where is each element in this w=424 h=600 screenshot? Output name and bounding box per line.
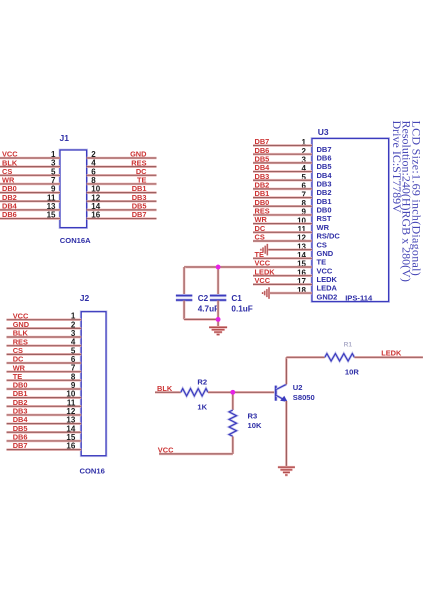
svg-text:RES: RES xyxy=(131,158,146,167)
svg-text:5: 5 xyxy=(51,167,56,176)
svg-text:DB6: DB6 xyxy=(317,154,332,163)
svg-text:DB3: DB3 xyxy=(255,172,270,181)
wire J1 pin 12 xyxy=(87,200,157,203)
wire C1 top lead xyxy=(217,267,220,295)
svg-text:DB2: DB2 xyxy=(317,188,332,197)
svg-text:VCC: VCC xyxy=(317,266,333,275)
svg-text:DB6: DB6 xyxy=(13,433,28,442)
ground at U3 pin 13 xyxy=(261,244,267,256)
wire J1 pin 8 xyxy=(87,183,157,186)
svg-text:14: 14 xyxy=(91,202,100,211)
svg-text:15: 15 xyxy=(47,211,56,220)
junction dot VCC/C1 xyxy=(216,265,221,270)
svg-text:11: 11 xyxy=(67,398,76,407)
wire VCC rail U3 pin 15 to capacitors xyxy=(184,266,312,269)
svg-text:4.7uF: 4.7uF xyxy=(198,305,219,314)
ground at U3 pin 18 xyxy=(263,287,269,299)
svg-text:DB2: DB2 xyxy=(255,181,270,190)
svg-text:DC: DC xyxy=(255,224,266,233)
svg-text:GND2: GND2 xyxy=(317,292,338,301)
wire J2 pin 7 xyxy=(7,370,82,373)
svg-text:9: 9 xyxy=(51,185,56,194)
wire J1 pin 16 xyxy=(87,217,157,220)
svg-text:DB7: DB7 xyxy=(13,441,28,450)
svg-text:DB5: DB5 xyxy=(255,154,270,163)
wire J2 pin 9 xyxy=(7,388,82,391)
svg-text:DB3: DB3 xyxy=(13,407,28,416)
wire U3 pin 7 xyxy=(253,196,312,199)
svg-text:CON16A: CON16A xyxy=(60,236,91,245)
svg-text:11: 11 xyxy=(47,193,56,202)
svg-text:DB4: DB4 xyxy=(13,415,29,424)
svg-text:10R: 10R xyxy=(345,368,359,377)
svg-text:12: 12 xyxy=(91,193,100,202)
svg-text:DB3: DB3 xyxy=(317,180,332,189)
svg-text:CS: CS xyxy=(317,240,327,249)
wire J2 pin 3 xyxy=(7,336,82,339)
svg-text:2: 2 xyxy=(71,320,76,329)
svg-text:DB1: DB1 xyxy=(255,189,270,198)
wire J1 pin 1 xyxy=(0,157,60,160)
svg-text:DB5: DB5 xyxy=(13,424,28,433)
svg-text:IPS-114: IPS-114 xyxy=(345,294,373,303)
svg-text:DB1: DB1 xyxy=(13,389,28,398)
svg-text:14: 14 xyxy=(66,424,75,433)
wire U3 pin 1 xyxy=(253,144,312,147)
svg-text:12: 12 xyxy=(66,407,75,416)
svg-text:DB1: DB1 xyxy=(132,184,147,193)
svg-text:10: 10 xyxy=(66,390,75,399)
svg-text:WR: WR xyxy=(2,176,15,185)
wire U3 pin 11 xyxy=(253,231,312,234)
svg-text:DB6: DB6 xyxy=(2,210,17,219)
svg-text:10K: 10K xyxy=(248,421,262,430)
wire U3 pin 5 xyxy=(253,179,312,182)
svg-text:LEDK: LEDK xyxy=(381,349,402,358)
svg-text:DB3: DB3 xyxy=(132,193,147,202)
wire capacitor ground rail xyxy=(184,318,218,321)
svg-text:U2: U2 xyxy=(293,383,303,392)
svg-text:RES: RES xyxy=(255,207,270,216)
svg-text:6: 6 xyxy=(71,355,76,364)
wire C2 top lead xyxy=(183,267,186,295)
wire collector up xyxy=(285,357,288,384)
wire BLK to R2 xyxy=(155,391,181,394)
wire R1 to LEDK xyxy=(354,356,423,359)
wire J2 pin 16 xyxy=(7,448,82,451)
svg-text:WR: WR xyxy=(317,223,330,232)
wire J2 pin 11 xyxy=(7,405,82,408)
wire U3 pin 3 xyxy=(253,162,312,165)
svg-text:VCC: VCC xyxy=(13,311,29,320)
svg-text:Drive IC:ST7789V: Drive IC:ST7789V xyxy=(390,121,404,214)
svg-text:WR: WR xyxy=(13,363,26,372)
IC U3 (LCD connector) xyxy=(312,139,389,302)
wire U3 pin 6 xyxy=(253,188,312,191)
svg-text:BLK: BLK xyxy=(2,158,18,167)
svg-text:VCC: VCC xyxy=(2,150,18,159)
svg-text:DB4: DB4 xyxy=(255,163,271,172)
svg-text:VCC: VCC xyxy=(255,276,271,285)
svg-text:DB7: DB7 xyxy=(255,137,270,146)
wire to VCC xyxy=(159,453,233,456)
svg-text:TE: TE xyxy=(13,372,23,381)
svg-text:DB1: DB1 xyxy=(317,197,332,206)
junction dot cap ground xyxy=(216,317,221,322)
svg-text:DB2: DB2 xyxy=(2,193,17,202)
svg-text:1: 1 xyxy=(51,150,56,159)
svg-text:1K: 1K xyxy=(197,403,207,412)
svg-text:CS: CS xyxy=(13,346,23,355)
wire J2 pin 14 xyxy=(7,431,82,434)
svg-text:2: 2 xyxy=(91,150,96,159)
wire J1 pin 7 xyxy=(0,183,60,186)
wire collector to R1 xyxy=(286,356,324,359)
connector J2 xyxy=(81,312,106,456)
svg-text:9: 9 xyxy=(71,381,76,390)
svg-text:RS/DC: RS/DC xyxy=(317,232,341,241)
wire J2 pin 10 xyxy=(7,396,82,399)
svg-text:R3: R3 xyxy=(248,412,258,421)
svg-text:C2: C2 xyxy=(198,294,209,303)
wire J1 pin 14 xyxy=(87,209,157,212)
wire J2 pin 1 xyxy=(7,318,82,321)
wire J1 pin 2 xyxy=(87,157,157,160)
svg-text:8: 8 xyxy=(91,176,96,185)
svg-text:DB0: DB0 xyxy=(2,184,17,193)
capacitor C1 xyxy=(210,296,226,301)
svg-text:DB2: DB2 xyxy=(13,398,28,407)
wire J1 pin 6 xyxy=(87,174,157,177)
svg-text:VCC: VCC xyxy=(255,259,271,268)
wire J2 pin 12 xyxy=(7,414,82,417)
svg-text:6: 6 xyxy=(91,167,96,176)
svg-text:0.1uF: 0.1uF xyxy=(231,305,252,314)
wire J2 pin 13 xyxy=(7,422,82,425)
ground below U2 emitter xyxy=(278,467,295,475)
svg-text:TE: TE xyxy=(317,258,327,267)
wire J1 pin 3 xyxy=(0,165,60,168)
wire J1 pin 11 xyxy=(0,200,60,203)
svg-text:5: 5 xyxy=(71,346,76,355)
junction dot base-R3 xyxy=(231,390,236,395)
svg-text:4: 4 xyxy=(91,159,96,168)
wire U3 pin 18 to ground xyxy=(269,292,312,295)
svg-text:DB7: DB7 xyxy=(317,145,332,154)
wire J1 pin 10 xyxy=(87,191,157,194)
svg-text:3: 3 xyxy=(51,159,56,168)
transistor U2 (NPN S8050) xyxy=(276,384,287,401)
svg-text:DB6: DB6 xyxy=(255,146,270,155)
wire R3 bottom xyxy=(232,436,235,454)
svg-text:16: 16 xyxy=(91,211,100,220)
wire to ground xyxy=(217,319,220,326)
svg-text:CON16: CON16 xyxy=(80,466,105,475)
wire J2 pin 15 xyxy=(7,440,82,443)
svg-text:S8050: S8050 xyxy=(293,393,315,402)
svg-text:15: 15 xyxy=(66,433,75,442)
wire emitter down xyxy=(285,401,288,466)
svg-text:LEDK: LEDK xyxy=(255,267,276,276)
junction dot VCC/C1 (top) xyxy=(216,265,221,270)
svg-text:RES: RES xyxy=(13,337,28,346)
wire J1 pin 9 xyxy=(0,191,60,194)
wire junction to R3 xyxy=(232,392,235,410)
svg-text:DB4: DB4 xyxy=(317,171,333,180)
wire U3 pin 2 xyxy=(253,153,312,156)
svg-text:DB4: DB4 xyxy=(2,202,18,211)
svg-text:LEDA: LEDA xyxy=(317,284,338,293)
svg-text:GND: GND xyxy=(130,150,147,159)
resistor R3 xyxy=(229,410,236,436)
wire U3 pin 12 xyxy=(253,240,312,243)
svg-text:U3: U3 xyxy=(318,127,329,137)
wire J1 pin 15 xyxy=(0,217,60,220)
svg-text:WR: WR xyxy=(255,215,268,224)
wire U3 pin 13 to ground xyxy=(267,248,312,251)
svg-text:TE: TE xyxy=(255,250,265,259)
svg-text:TE: TE xyxy=(137,176,147,185)
resistor R1 xyxy=(325,354,355,361)
connector J1 xyxy=(60,150,87,228)
wire J1 pin 5 xyxy=(0,174,60,177)
resistor R2 xyxy=(181,389,208,396)
svg-text:LEDK: LEDK xyxy=(317,275,338,284)
junction dot base/R3 (top) xyxy=(230,390,235,395)
svg-text:10: 10 xyxy=(91,185,100,194)
wire J2 pin 6 xyxy=(7,362,82,365)
wire J2 pin 8 xyxy=(7,379,82,382)
wire C2 bottom lead xyxy=(183,301,186,320)
svg-text:CS: CS xyxy=(255,233,265,242)
wire U3 pin 9 xyxy=(253,214,312,217)
wire U3 pin 8 xyxy=(253,205,312,208)
svg-text:VCC: VCC xyxy=(158,445,174,454)
svg-text:3: 3 xyxy=(71,329,76,338)
wire J2 pin 5 xyxy=(7,353,82,356)
svg-text:7: 7 xyxy=(51,176,56,185)
ground below capacitors xyxy=(209,327,227,334)
svg-text:4: 4 xyxy=(71,338,76,347)
svg-text:DB5: DB5 xyxy=(132,202,147,211)
svg-text:RST: RST xyxy=(317,214,332,223)
wire C1 bottom lead xyxy=(217,301,220,320)
svg-text:DB7: DB7 xyxy=(132,210,147,219)
svg-text:R2: R2 xyxy=(197,378,207,387)
junction dot capacitor ground (top) xyxy=(216,317,221,322)
svg-text:13: 13 xyxy=(66,416,75,425)
wire U3 pin 4 xyxy=(253,170,312,173)
wire U3 pin 17 xyxy=(253,283,312,286)
svg-text:J1: J1 xyxy=(60,133,70,143)
wire J1 pin 13 xyxy=(0,209,60,212)
wire U3 pin 10 xyxy=(253,222,312,225)
svg-text:J2: J2 xyxy=(80,293,90,303)
wire U3 pin 14 xyxy=(253,257,312,260)
wire J2 pin 4 xyxy=(7,344,82,347)
svg-text:C1: C1 xyxy=(231,294,242,303)
svg-text:DC: DC xyxy=(13,355,24,364)
svg-text:16: 16 xyxy=(66,442,75,451)
svg-text:13: 13 xyxy=(47,202,56,211)
svg-text:1: 1 xyxy=(71,312,76,321)
svg-text:8: 8 xyxy=(71,372,76,381)
wire U3 pin 16 xyxy=(253,274,312,277)
wire J1 pin 4 xyxy=(87,165,157,168)
capacitor C2 xyxy=(176,296,192,301)
svg-text:R1: R1 xyxy=(344,341,353,348)
svg-text:DB0: DB0 xyxy=(317,206,332,215)
svg-text:BLK: BLK xyxy=(13,329,29,338)
wire J2 pin 2 xyxy=(7,327,82,330)
wire R2 to base of U2 xyxy=(208,391,275,394)
